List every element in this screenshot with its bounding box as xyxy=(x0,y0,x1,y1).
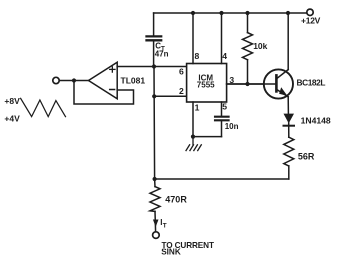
svg-text:T: T xyxy=(163,223,167,230)
resistor 10k xyxy=(243,13,268,84)
node pin2 junction xyxy=(152,94,156,98)
svg-text:56R: 56R xyxy=(298,151,315,161)
svg-text:47n: 47n xyxy=(155,49,169,58)
node collector top junction xyxy=(286,11,290,15)
pin 8 xyxy=(192,13,194,64)
wire noninverting input to pin 6 xyxy=(117,66,186,68)
svg-text:+12V: +12V xyxy=(301,15,321,25)
wire bottom rail xyxy=(155,178,289,180)
node 10k top junction xyxy=(245,11,249,15)
pin 4 xyxy=(221,13,223,64)
capacitor C_T 47n xyxy=(147,13,169,67)
node bottom rail left junction xyxy=(153,177,157,181)
wire top supply rail xyxy=(154,12,307,14)
svg-text:2: 2 xyxy=(179,86,184,96)
svg-text:1: 1 xyxy=(195,103,200,113)
capacitor 10n xyxy=(215,117,239,137)
svg-text:10k: 10k xyxy=(253,41,267,51)
arrow current IT xyxy=(153,220,159,227)
waveform annotation +8V/+4V sawtooth xyxy=(4,96,65,124)
wire CT node down to bottom rail xyxy=(153,67,156,180)
svg-text:10n: 10n xyxy=(225,122,239,131)
node pin4 top junction xyxy=(219,11,223,15)
node pin3 junction xyxy=(245,82,249,86)
svg-text:SINK: SINK xyxy=(161,248,181,257)
svg-text:TL081: TL081 xyxy=(121,75,146,85)
pin 3 xyxy=(227,83,264,85)
wire collector xyxy=(287,13,289,70)
pin 5 xyxy=(221,102,223,116)
resistor 470R xyxy=(150,179,187,232)
node CT junction xyxy=(152,64,156,68)
svg-text:4: 4 xyxy=(222,51,227,61)
terminal to current sink xyxy=(153,232,160,239)
diode D1 1N4148 xyxy=(284,114,331,138)
svg-text:1N4148: 1N4148 xyxy=(301,115,331,125)
node ground junction xyxy=(191,135,195,139)
op-amp U1 TL081 xyxy=(89,62,146,98)
svg-text:BC182L: BC182L xyxy=(297,77,326,87)
node output junction xyxy=(72,78,76,82)
terminal +12V xyxy=(307,9,313,15)
svg-text:5: 5 xyxy=(222,102,227,112)
IC U2 ICM 7555 xyxy=(187,64,227,103)
svg-text:+8V: +8V xyxy=(4,96,20,106)
wire emitter xyxy=(287,97,289,114)
wire feedback output to inverting input xyxy=(74,81,134,105)
ground xyxy=(186,137,201,151)
pin 1 xyxy=(192,102,194,137)
wire output xyxy=(59,80,88,82)
svg-text:+4V: +4V xyxy=(4,113,20,123)
svg-text:8: 8 xyxy=(195,51,200,61)
terminal op-amp output xyxy=(53,77,59,83)
transistor Q1 BC182L xyxy=(227,69,326,98)
svg-text:7555: 7555 xyxy=(197,80,215,89)
svg-text:470R: 470R xyxy=(165,194,187,204)
wire pin 2 xyxy=(154,95,186,97)
wire pin1 to 10n bottom xyxy=(193,136,222,138)
svg-text:6: 6 xyxy=(179,67,184,77)
node pin8 top junction xyxy=(191,11,195,15)
resistor 56R xyxy=(284,137,315,179)
